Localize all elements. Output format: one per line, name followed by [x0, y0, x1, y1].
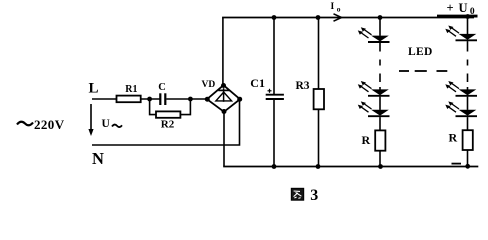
wire: [379, 43, 381, 52]
LED string 1: [358, 18, 390, 167]
svg-text:+: +: [447, 1, 454, 15]
wire: C to bridge left: [166, 98, 207, 100]
voltage arrow U~: [88, 104, 122, 136]
svg-text:U: U: [102, 118, 111, 130]
node: top rail / LED string 1: [378, 15, 383, 20]
capacitor C: [158, 82, 166, 105]
wire: [467, 150, 469, 167]
resistor R (string 2): [463, 130, 473, 150]
svg-text:LED: LED: [408, 46, 433, 58]
svg-text:C1: C1: [250, 76, 265, 90]
dashed line between strings: [399, 70, 447, 72]
bridge vertex node dots: [221, 83, 226, 88]
node: bottom rail / C1: [272, 164, 277, 169]
LED D2c: [459, 110, 477, 116]
wire: R1 to node A: [141, 98, 160, 100]
LED string 2: [445, 18, 477, 167]
svg-text:3: 3: [310, 187, 318, 204]
svg-text:I: I: [331, 2, 335, 12]
- rail (bottom): [223, 166, 478, 168]
caption 图 3: [291, 187, 318, 204]
svg-text:U: U: [459, 1, 468, 15]
wire: [467, 97, 469, 110]
wire: [467, 117, 469, 130]
current arrow Io: [331, 2, 342, 21]
node: bottom rail / LED string 2: [465, 164, 470, 169]
wire: [379, 151, 381, 167]
node: top rail / LED string 2: [465, 14, 470, 19]
wire: L to R1: [92, 98, 117, 100]
svg-text:0: 0: [470, 7, 475, 17]
wire: R2 branch left: [150, 99, 156, 115]
LED D1c: [371, 110, 389, 116]
wire: N to bridge right vertex: [92, 99, 240, 145]
dashed continuation: [467, 60, 469, 66]
LED D1b: [379, 87, 381, 90]
svg-text:R2: R2: [161, 119, 175, 131]
+ rail (top): [222, 17, 474, 19]
dashed continuation: [379, 60, 381, 66]
svg-text:R: R: [449, 131, 458, 145]
svg-text:VD: VD: [202, 80, 216, 90]
node: bottom rail / LED string 1: [378, 164, 383, 169]
wire: [467, 41, 469, 51]
wire: bridge top to + rail: [222, 18, 224, 86]
svg-text:o: o: [337, 4, 341, 13]
wire: [467, 18, 469, 35]
LED D2a: [459, 34, 477, 40]
LED D2b: [467, 87, 469, 90]
resistor R2: [156, 111, 180, 130]
wire: R2 branch right: [180, 99, 190, 115]
svg-text:220V: 220V: [34, 117, 65, 132]
svg-text:C: C: [158, 82, 166, 93]
svg-text:L: L: [89, 80, 99, 96]
bridge rectifier VD: [202, 80, 241, 112]
node: top rail / R3: [316, 15, 321, 20]
wire: [379, 117, 381, 130]
wire: bridge bottom to - rail: [223, 112, 225, 167]
minus terminal label: [452, 163, 462, 165]
node A: [147, 97, 152, 102]
svg-text:N: N: [92, 149, 104, 168]
label + Uo: [447, 1, 475, 17]
label ~220V: [17, 117, 65, 132]
svg-text:R3: R3: [296, 80, 310, 92]
resistor R (string 1): [375, 130, 385, 150]
LED D1a: [371, 36, 389, 42]
svg-text:R1: R1: [125, 84, 137, 95]
svg-text:R: R: [362, 133, 371, 147]
node B: [188, 97, 193, 102]
node: top rail / C1: [272, 15, 277, 20]
resistor R1: [117, 84, 141, 102]
wire: [379, 18, 381, 36]
output + terminal bold segment: [437, 15, 478, 18]
wire: [379, 97, 381, 110]
load resistor R3: [296, 18, 325, 167]
filter capacitor C1: [250, 18, 284, 167]
node: bottom rail / R3: [316, 164, 321, 169]
